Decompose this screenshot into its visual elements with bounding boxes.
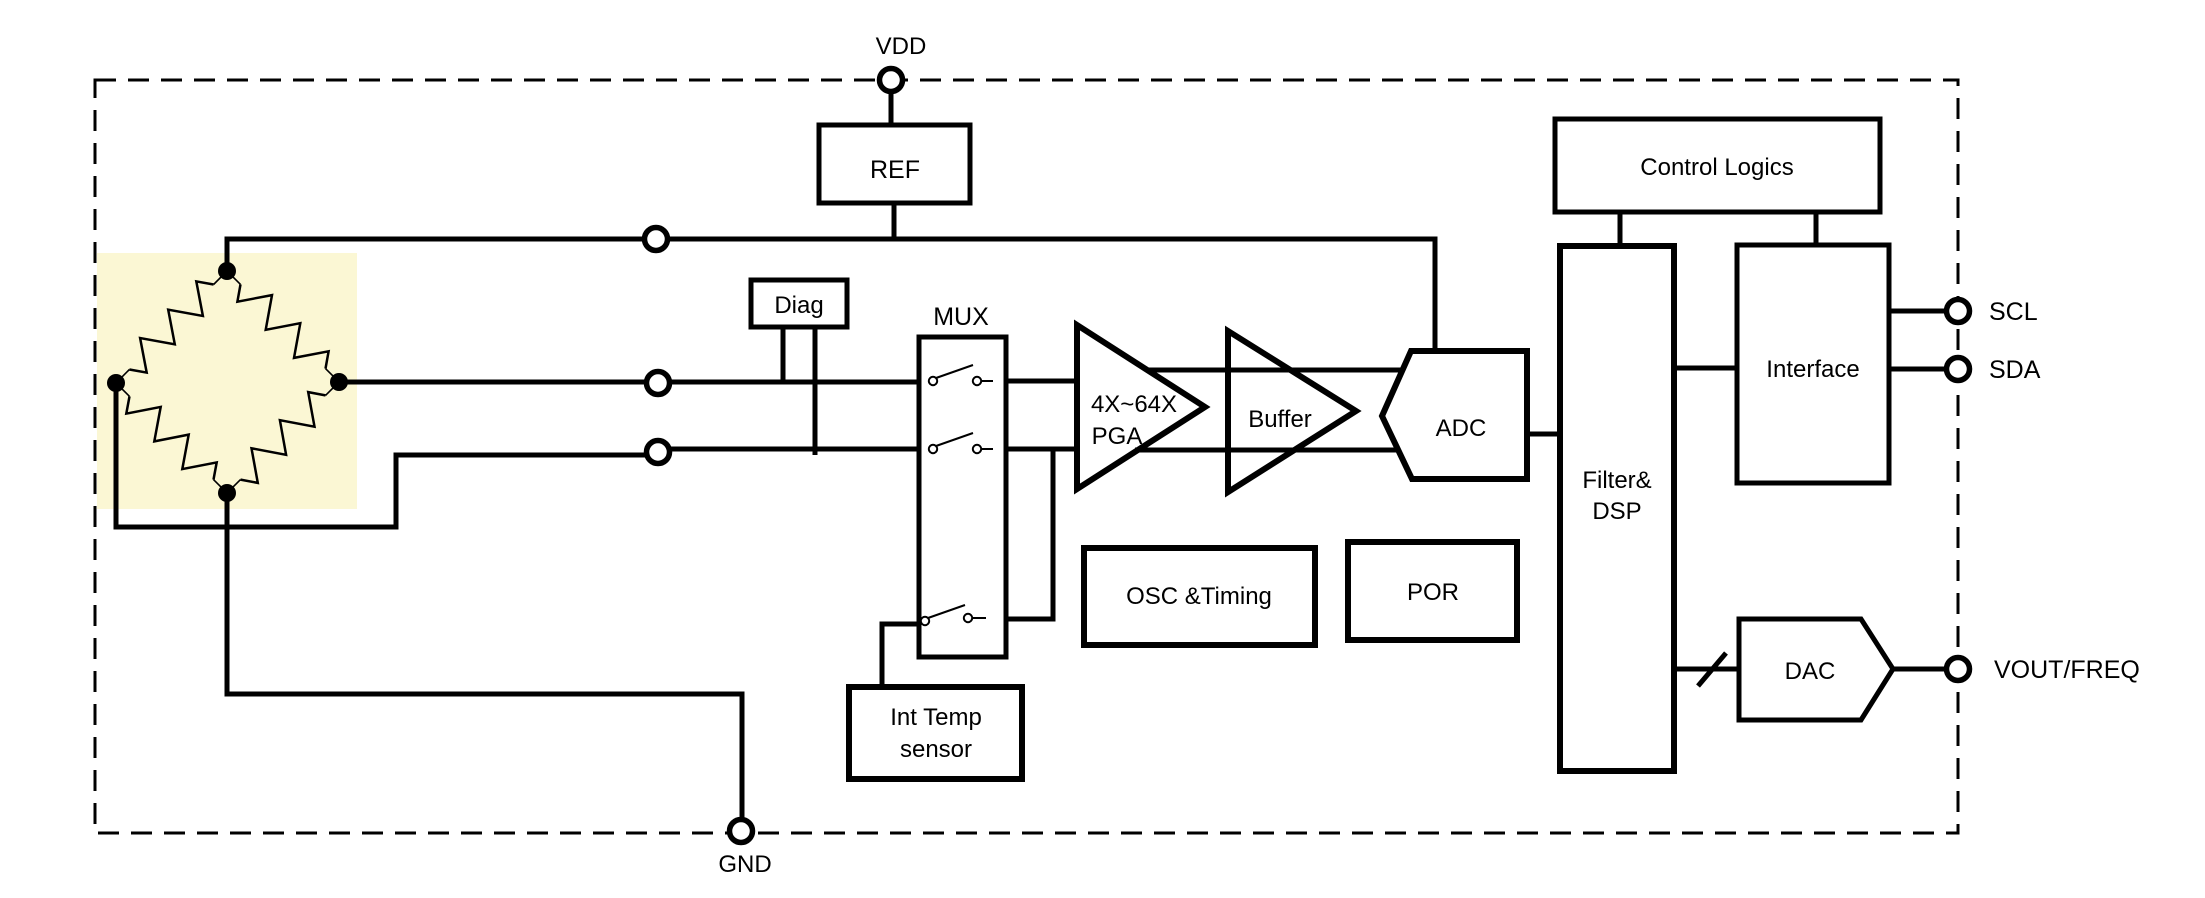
ADC block <box>1382 351 1527 479</box>
MUX box <box>919 337 1006 657</box>
VDD pad <box>880 69 903 92</box>
REF box <box>819 125 970 203</box>
bridge node right <box>330 373 348 391</box>
chip boundary (dashed) <box>95 80 1958 833</box>
svg-text:DAC: DAC <box>1785 658 1836 685</box>
wire Diag lower stub <box>813 327 818 455</box>
switch S3 <box>921 605 986 625</box>
wire bridge left node to MUX switch S2 <box>116 383 646 527</box>
node pad on VDD rail <box>645 228 668 251</box>
resistor R3 (bridge bottom-left arm) <box>116 383 227 493</box>
Int Temp sensor box <box>849 687 1022 779</box>
wire Int Temp sensor to MUX switch S3 <box>882 624 919 687</box>
wire PGA to ADC (upper) <box>1147 368 1402 373</box>
wire Filter&DSP to DAC <box>1674 667 1739 672</box>
node pad on upper input wire <box>647 372 670 395</box>
wire Diag upper stub <box>781 327 786 382</box>
wire DAC to VOUT/FREQ pad <box>1893 667 1947 672</box>
svg-text:PGA: PGA <box>1092 423 1143 450</box>
svg-text:VOUT/FREQ: VOUT/FREQ <box>1994 656 2140 684</box>
Control Logics box <box>1555 119 1880 212</box>
bridge node bottom <box>218 484 236 502</box>
svg-text:DSP: DSP <box>1592 498 1641 525</box>
svg-text:MUX: MUX <box>933 303 989 331</box>
SCL pad <box>1947 300 1970 323</box>
SDA pad <box>1947 358 1970 381</box>
wire bridge right node to MUX switch S1 <box>339 380 921 385</box>
wire Interface to SDA pad <box>1889 367 1947 372</box>
op-amp Buffer <box>1228 331 1356 492</box>
svg-text:4X~64X: 4X~64X <box>1091 391 1177 418</box>
svg-text:ADC: ADC <box>1436 415 1487 442</box>
svg-text:VDD: VDD <box>876 33 927 60</box>
node pad on lower input wire <box>647 441 670 464</box>
op-amp PGA (4X~64X) <box>1077 325 1205 489</box>
Interface box <box>1737 245 1889 483</box>
switch S2 <box>929 433 993 453</box>
wire bridge bottom node to GND <box>227 493 742 820</box>
resistor R4 (bridge bottom-right arm) <box>227 382 339 493</box>
svg-text:OSC &Timing: OSC &Timing <box>1126 583 1272 610</box>
resistor R2 (bridge top-right arm) <box>227 271 339 382</box>
wire Filter&DSP to Interface <box>1674 366 1737 371</box>
GND pad <box>730 820 753 843</box>
VOUT/FREQ pad <box>1947 658 1970 681</box>
wire MUX S2 output to PGA <box>992 447 1080 452</box>
wire REF to VDD rail <box>892 203 897 239</box>
Filter&DSP box <box>1560 246 1674 771</box>
svg-text:sensor: sensor <box>900 736 972 763</box>
wire VDD rail from bridge top to ADC top <box>227 239 1435 351</box>
svg-text:Filter&: Filter& <box>1582 467 1651 494</box>
wire S3 output riser to S2 line <box>985 449 1053 619</box>
svg-text:Int Temp: Int Temp <box>890 704 982 731</box>
wire Control Logics to Interface <box>1814 212 1819 245</box>
wire Control Logics to Filter&DSP <box>1618 212 1623 246</box>
switch S1 <box>929 365 993 385</box>
wire Interface to SCL pad <box>1889 309 1947 314</box>
svg-text:Control Logics: Control Logics <box>1640 154 1793 181</box>
resistor R1 (bridge top-left arm) <box>116 271 227 383</box>
wire VDD to REF <box>889 91 894 126</box>
svg-text:POR: POR <box>1407 579 1459 606</box>
svg-text:Interface: Interface <box>1766 356 1859 383</box>
POR box <box>1348 542 1517 640</box>
Diag box <box>751 280 847 327</box>
wire MUX S1 output to PGA <box>992 379 1080 384</box>
DAC block <box>1739 619 1893 720</box>
bridge highlight <box>97 253 357 509</box>
svg-text:Buffer: Buffer <box>1248 406 1312 433</box>
bridge node top <box>218 262 236 280</box>
bus-width slash on DAC wire <box>1698 653 1726 686</box>
wire PGA to ADC (lower) <box>1135 448 1400 453</box>
svg-text:SDA: SDA <box>1989 356 2041 384</box>
svg-text:GND: GND <box>718 851 771 878</box>
svg-text:SCL: SCL <box>1989 298 2038 326</box>
svg-text:Diag: Diag <box>774 292 823 319</box>
wire ADC to Filter&DSP <box>1527 432 1560 437</box>
bridge node left <box>107 374 125 392</box>
OSC &Timing box <box>1084 548 1315 645</box>
svg-text:REF: REF <box>870 156 920 184</box>
